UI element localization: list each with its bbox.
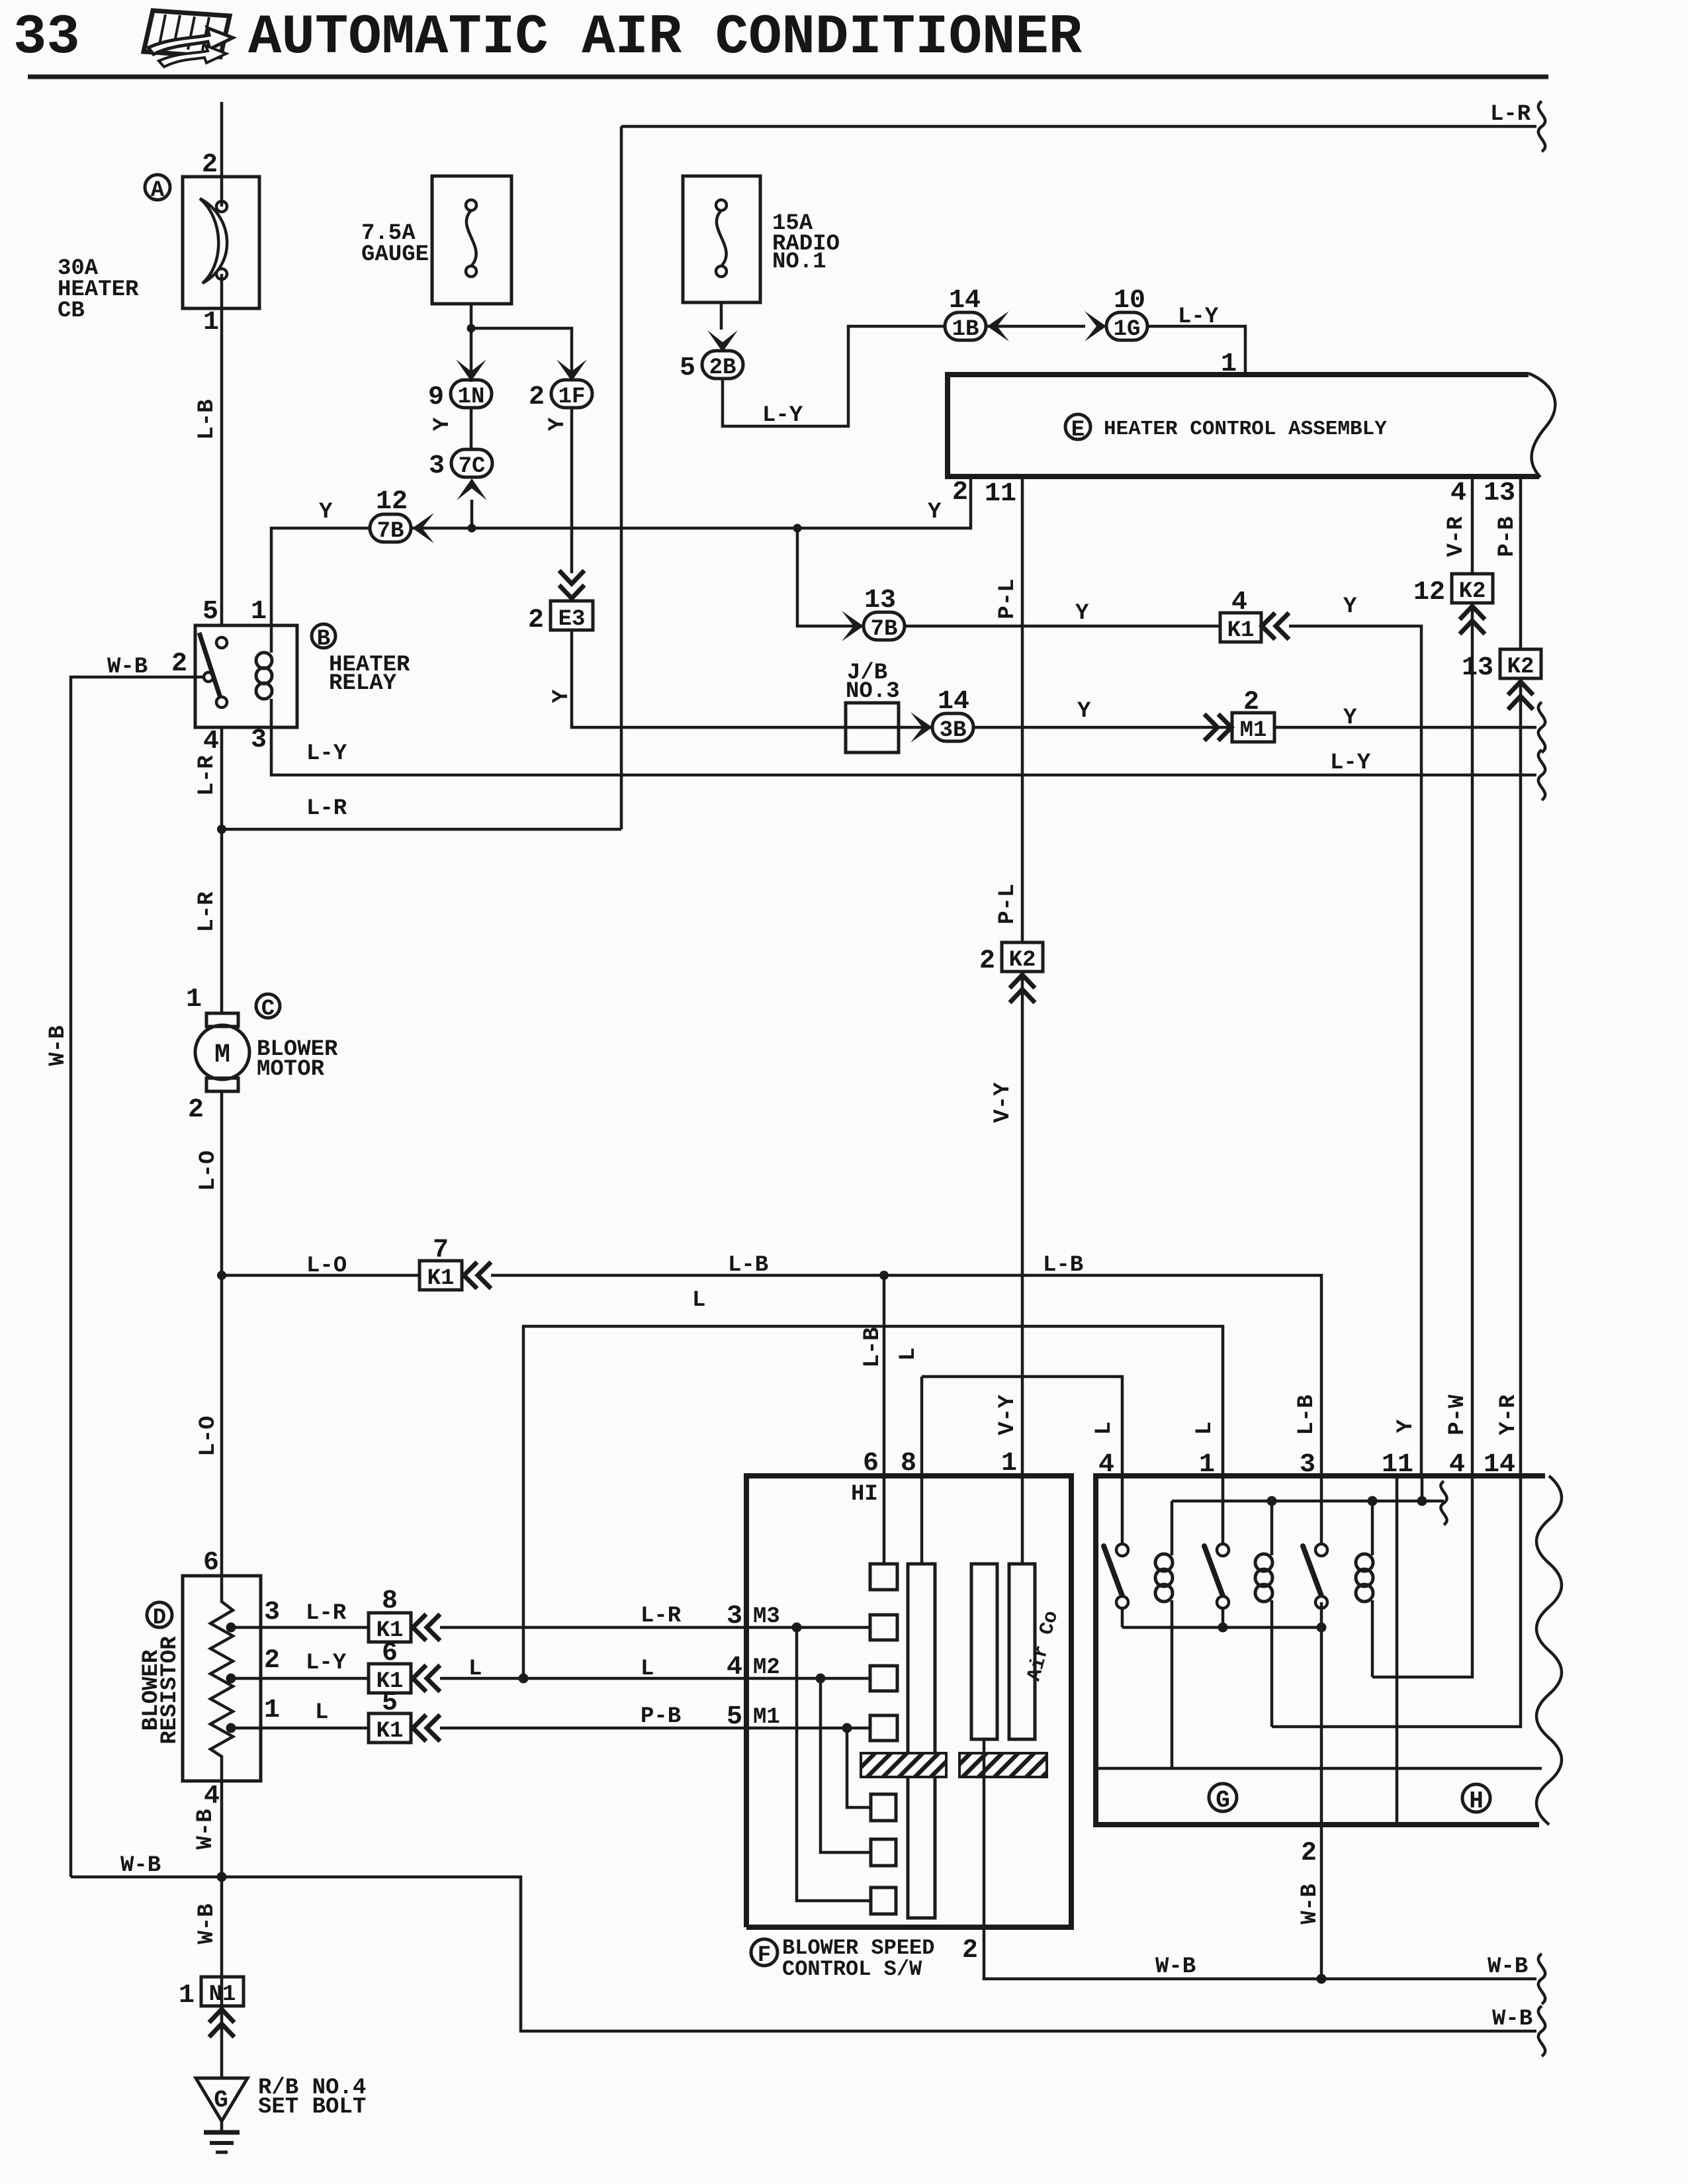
svg-text:L-O: L-O — [306, 1253, 347, 1279]
junction node pin11 join — [1417, 1496, 1427, 1506]
wire L-R riser (x939 from top wire down to L-R branch) — [620, 126, 623, 829]
svg-text:1: 1 — [1221, 349, 1237, 379]
label HEATER RELAY — [329, 653, 410, 696]
svg-text:2: 2 — [171, 649, 187, 679]
wire Y from M1 to right continuation — [1274, 726, 1536, 729]
svg-text:2: 2 — [529, 383, 545, 412]
svg-text:Y: Y — [1343, 594, 1357, 619]
lower contact square b — [871, 1839, 896, 1866]
svg-text:Y: Y — [1075, 601, 1089, 626]
chevron arrow up into K2-13 — [1508, 682, 1533, 709]
label W-B rotated (above junction) — [193, 1809, 218, 1849]
svg-text:13: 13 — [1484, 478, 1515, 508]
wire P-W from K2-12 down to H box pin4 — [1471, 606, 1474, 1476]
continuation squiggle L-Y right — [1538, 750, 1545, 800]
relay coil 2 — [1255, 1501, 1272, 1727]
svg-text:HEATER CONTROL ASSEMBLY: HEATER CONTROL ASSEMBLY — [1104, 418, 1387, 441]
relay pin numbers 5 1 2 4 3 — [202, 597, 218, 627]
pin 2 of F — [962, 1936, 978, 1966]
svg-text:K1: K1 — [1227, 618, 1255, 643]
svg-text:P-W: P-W — [1445, 1394, 1470, 1435]
svg-text:F: F — [758, 1943, 771, 1968]
svg-text:L-Y: L-Y — [306, 1651, 347, 1676]
junction node M3 — [792, 1623, 802, 1633]
svg-text:M1: M1 — [1240, 718, 1267, 743]
wire L-O branch to K1-7 — [222, 1274, 420, 1277]
connector 6 K1 — [369, 1639, 411, 1694]
label Y rotated (1F wire) — [545, 417, 570, 431]
label W-B (bottom left) — [120, 1853, 161, 1878]
junction node Y at x1205 — [793, 524, 802, 533]
wire Y from 1F down to E3 — [570, 408, 574, 573]
label L (on y2004 run) — [692, 1288, 705, 1313]
svg-text:RESISTOR: RESISTOR — [157, 1636, 183, 1745]
svg-text:A: A — [151, 178, 165, 203]
connector 12 K2 — [1413, 574, 1493, 608]
svg-text:NO.3: NO.3 — [846, 679, 900, 704]
wire Y from 7B-13 to K1-4 — [905, 625, 1220, 628]
svg-text:3B: 3B — [940, 718, 967, 743]
label Y (right of junction) — [928, 500, 942, 525]
svg-text:10: 10 — [1114, 286, 1145, 316]
svg-text:Y-R: Y-R — [1496, 1394, 1521, 1435]
svg-text:9: 9 — [428, 383, 444, 412]
relay B coil — [256, 625, 272, 727]
connector arrow into 1B (pointing left) — [987, 311, 1009, 341]
wire L-B drop to blower switch pin6 — [883, 1275, 886, 1476]
blower motor C — [195, 1013, 249, 1091]
junction box J/B NO.3 — [846, 703, 899, 752]
label L-B (right) — [1043, 1253, 1083, 1278]
wire L-R tap3 to K1-8 — [231, 1626, 369, 1629]
relay B heater relay box — [195, 625, 297, 727]
connector strip line — [1096, 1767, 1542, 1770]
svg-text:1: 1 — [251, 597, 267, 627]
wire L-Y from 2B down-right-up to 1B — [723, 326, 945, 426]
relay B switch contacts — [204, 637, 227, 707]
double chevron into K1-5 — [413, 1715, 440, 1741]
header rule — [28, 75, 1548, 79]
double chevron into M1 — [1204, 714, 1231, 741]
wire L-R main bus relay pin4 down to motor — [220, 727, 224, 1013]
G/H pin labels — [1098, 1450, 1114, 1480]
wire Y drop to 7B-13 row — [797, 528, 862, 626]
label Y rotated (below E3) — [549, 689, 574, 703]
air-co bar left — [971, 1564, 997, 1739]
svg-text:CONTROL S/W: CONTROL S/W — [782, 1957, 922, 1981]
label L-Y (left) — [306, 741, 347, 766]
wire from radio fuse to 2B arrow — [720, 302, 723, 330]
continuation squiggle L-R top right — [1538, 101, 1545, 152]
svg-text:P-L: P-L — [995, 578, 1020, 619]
svg-text:L: L — [692, 1288, 705, 1313]
relay assembly G/H box — [1096, 1476, 1562, 1825]
svg-text:5: 5 — [382, 1688, 398, 1718]
hatched slider block left — [861, 1753, 946, 1777]
label P-B rotated — [1495, 516, 1520, 557]
svg-text:P-B: P-B — [1495, 516, 1520, 557]
svg-text:V-Y: V-Y — [991, 1082, 1016, 1123]
connector 12 7B — [370, 487, 411, 544]
svg-text:L-Y: L-Y — [1178, 304, 1219, 330]
wire P-L assembly pin11 down to K2-2 — [1021, 477, 1024, 942]
connector 5 2B — [680, 351, 743, 383]
svg-text:L: L — [315, 1700, 328, 1725]
internal Y bus in G/H box — [1172, 1500, 1444, 1503]
label V-Y rotated (upper) — [991, 1082, 1016, 1123]
svg-text:L-R: L-R — [195, 755, 220, 796]
double chevron into K1-7 — [464, 1262, 491, 1289]
wire branch to 1F: right then down — [471, 328, 572, 381]
svg-text:L: L — [641, 1657, 654, 1682]
svg-text:12: 12 — [376, 487, 408, 517]
label W-B (bottom right) — [1492, 2007, 1533, 2032]
svg-text:SET BOLT: SET BOLT — [258, 2095, 366, 2120]
wire Y from 1N to 7C — [470, 408, 473, 449]
svg-text:W-B: W-B — [46, 1025, 71, 1066]
moving bar from pin 8 — [908, 1476, 935, 1918]
label L-R (branch) — [306, 796, 347, 821]
pin 3 M3 labels — [727, 1602, 780, 1631]
svg-text:CB: CB — [58, 298, 85, 324]
svg-text:1: 1 — [1199, 1450, 1215, 1480]
svg-text:GAUGE: GAUGE — [361, 242, 429, 267]
svg-text:V-R: V-R — [1444, 516, 1469, 557]
label L-B rotated (F pin6) — [860, 1327, 885, 1367]
label L-Y (2B wire) — [762, 403, 803, 428]
svg-text:M: M — [214, 1040, 230, 1070]
svg-text:D: D — [153, 1606, 166, 1631]
wire main bus from top into CB — [220, 102, 224, 308]
svg-text:M1: M1 — [753, 1705, 780, 1730]
resistor zigzag — [210, 1576, 233, 1781]
label Y (3B row left) — [1077, 699, 1091, 724]
svg-text:MOTOR: MOTOR — [257, 1057, 325, 1082]
continuation squiggle W-B right — [1538, 1954, 1545, 2004]
wire L-B from K1-7 right to corner x1997 — [491, 1275, 1321, 1476]
wire F pin8 riser — [920, 1377, 924, 1476]
label R/B NO.4 SET BOLT — [258, 2075, 366, 2120]
label L-R rotated (above motor) — [195, 891, 220, 933]
svg-text:L-B: L-B — [1294, 1394, 1319, 1435]
svg-text:6: 6 — [863, 1449, 879, 1479]
svg-text:5: 5 — [680, 353, 695, 383]
label 7.5A GAUGE — [361, 221, 429, 267]
connector 7 K1 — [420, 1236, 462, 1291]
label circled H — [1462, 1784, 1490, 1815]
circuit breaker A 30A HEATER CB — [183, 177, 259, 308]
svg-text:N1: N1 — [209, 1982, 236, 2007]
chevron arrow down into E3 — [559, 570, 584, 598]
junction node coil3 feed — [1368, 1496, 1378, 1506]
label L-Y (1G wire) — [1178, 304, 1219, 330]
heater control assembly E box — [948, 373, 1555, 477]
header air conditioner vent icon — [144, 11, 233, 67]
svg-text:33: 33 — [13, 7, 80, 69]
svg-text:4: 4 — [1231, 588, 1247, 617]
junction node below gauge fuse — [467, 324, 476, 333]
svg-text:2: 2 — [264, 1646, 280, 1676]
svg-text:11: 11 — [985, 479, 1016, 509]
svg-text:3: 3 — [251, 725, 267, 755]
connector arrow into 3B — [911, 712, 932, 743]
svg-text:L-O: L-O — [196, 1150, 221, 1191]
label Air Co rotated — [1023, 1609, 1063, 1684]
svg-text:1G: 1G — [1114, 317, 1141, 342]
svg-text:L-Y: L-Y — [306, 741, 347, 766]
svg-text:3: 3 — [264, 1598, 280, 1627]
wire P-B from K1-5 to M1 contact — [440, 1727, 870, 1730]
svg-text:NO.1: NO.1 — [772, 250, 826, 275]
pin 4 of resistor — [204, 1782, 220, 1811]
resistor tap 3 junction — [226, 1623, 236, 1633]
HI contact square — [870, 1564, 897, 1590]
svg-text:14: 14 — [949, 286, 981, 316]
connector 8 K1 — [369, 1586, 411, 1643]
svg-text:3: 3 — [727, 1602, 742, 1631]
svg-text:HI: HI — [851, 1482, 878, 1507]
svg-text:4: 4 — [1449, 1450, 1465, 1480]
svg-text:RELAY: RELAY — [329, 671, 397, 696]
connector arrow up into 7C — [457, 478, 487, 500]
label L rotated (F pin8) — [896, 1347, 921, 1361]
wire L-R from K1-8 to M3 contact — [440, 1626, 870, 1629]
M2 contact square — [870, 1666, 897, 1691]
wire L branch F-pin8 to G-box pin4 — [922, 1377, 1122, 1476]
label W-B rotated on left bus — [46, 1025, 71, 1066]
svg-text:4: 4 — [204, 1782, 220, 1811]
label W-B (right of junction) — [1488, 1954, 1528, 1979]
pin 11 of assembly — [985, 479, 1016, 509]
svg-text:5: 5 — [202, 597, 218, 627]
wire air-co left bar down to pin 2 out — [984, 1739, 1536, 1979]
wire Y from K1-4 to riser x2148 — [1289, 626, 1421, 1476]
svg-text:L-B: L-B — [195, 399, 220, 439]
wire pin2 W-B down from bus through box — [1320, 1602, 1323, 1979]
label W-B rotated (above N1) — [195, 1903, 220, 1944]
air-co bar right fed by pin1 — [1009, 1476, 1035, 1739]
wire Y-R from K2-13 down to H box pin14 — [1519, 681, 1523, 1476]
label Y rotated (1N wire) — [430, 417, 455, 431]
continuation squiggle Y right — [1538, 702, 1545, 752]
svg-text:K2: K2 — [1009, 948, 1036, 973]
svg-text:1: 1 — [264, 1696, 280, 1725]
svg-text:13: 13 — [864, 586, 896, 615]
label circled E — [1065, 414, 1090, 443]
wire P-W hook pin4H to coil3 — [1372, 1476, 1472, 1677]
svg-text:L-Y: L-Y — [762, 403, 803, 428]
svg-text:5: 5 — [727, 1702, 742, 1732]
svg-text:L: L — [468, 1657, 482, 1682]
svg-text:E3: E3 — [558, 607, 586, 632]
label L-B (left) — [728, 1253, 768, 1278]
junction node M1 — [842, 1723, 852, 1733]
label L-R rotated (below relay) — [195, 755, 220, 796]
junction node L-O branch — [217, 1271, 226, 1280]
svg-text:L-R: L-R — [306, 1601, 347, 1626]
header title AUTOMATIC AIR CONDITIONER — [248, 7, 1083, 69]
pin 1 of assembly — [1221, 349, 1237, 379]
ground R/B NO.4 SET BOLT — [196, 2078, 247, 2152]
junction node switch3 bottom / pin2 — [1317, 1623, 1327, 1633]
wire M1 hook to lower square a — [847, 1728, 871, 1807]
label 15A RADIO NO.1 — [772, 211, 840, 275]
label circled C — [256, 994, 280, 1022]
svg-text:Y: Y — [545, 417, 570, 431]
pin 1 of F — [1001, 1449, 1017, 1479]
junction node switch2 bottom — [1218, 1623, 1228, 1633]
wire L from K1-6 to M2 contact — [440, 1677, 870, 1680]
divider between connectors G and H — [1396, 1476, 1399, 1825]
svg-text:L-O: L-O — [196, 1416, 221, 1456]
wire L-R top feed (from riser to top-right continuation) — [621, 125, 1536, 128]
label L-Y (tap2) — [306, 1651, 347, 1676]
wire L-B from CB pin1 to relay pin5 — [220, 308, 224, 625]
svg-text:W-B: W-B — [1298, 1884, 1323, 1924]
pin 8 of F — [901, 1449, 916, 1479]
svg-text:7B: 7B — [871, 617, 898, 642]
label L-R (tap3) — [306, 1601, 347, 1626]
junction node L riser — [519, 1674, 529, 1684]
label L (M2 row) — [641, 1657, 654, 1682]
connector 13 7B — [864, 586, 905, 642]
M3 contact square — [870, 1615, 897, 1640]
svg-text:11: 11 — [1382, 1450, 1413, 1480]
wire Y-R hook pin14 to coil2 — [1272, 1476, 1521, 1727]
label L-O (K1-7 row) — [306, 1253, 347, 1279]
label circled D — [147, 1602, 172, 1631]
svg-text:K1: K1 — [377, 1719, 404, 1744]
wire L tap1 to K1-5 — [231, 1727, 369, 1730]
connector arrow into 1G (pointing right) — [1085, 311, 1106, 341]
label HI — [851, 1482, 878, 1507]
label BLOWER MOTOR — [257, 1037, 338, 1082]
label W-B — [107, 655, 148, 680]
svg-text:W-B: W-B — [1155, 1954, 1196, 1979]
wire from 7C down to Y junction — [470, 500, 474, 528]
double chevron into K1-8 — [413, 1614, 440, 1641]
double chevron into K1-4 — [1262, 613, 1289, 639]
label L (left of junction) — [468, 1657, 482, 1682]
connector arrow into 1F — [556, 359, 587, 381]
fuse 7.5A GAUGE — [432, 176, 511, 304]
svg-text:8: 8 — [382, 1586, 398, 1616]
svg-text:Y: Y — [1343, 705, 1357, 731]
label W-B (left of junction) — [1155, 1954, 1196, 1979]
svg-text:W-B: W-B — [107, 655, 148, 680]
wire P-B assembly pin13 down to K2-13 — [1519, 477, 1523, 649]
svg-text:1B: 1B — [952, 317, 979, 342]
label L-B rotated — [195, 399, 220, 439]
lower contact square c — [871, 1888, 896, 1914]
svg-text:2B: 2B — [709, 355, 736, 381]
svg-text:1N: 1N — [458, 385, 485, 410]
pin 6 of F — [863, 1449, 879, 1479]
svg-text:L-R: L-R — [195, 891, 220, 933]
svg-text:2: 2 — [202, 150, 218, 180]
connector 10 1G — [1106, 286, 1147, 342]
svg-text:M3: M3 — [753, 1604, 780, 1629]
relay switch 3 — [1303, 1476, 1327, 1608]
svg-text:Y: Y — [319, 500, 333, 525]
svg-text:L: L — [896, 1347, 921, 1361]
pin 4 of assembly — [1450, 478, 1466, 508]
double chevron into K1-6 — [413, 1665, 440, 1692]
svg-text:1: 1 — [1001, 1449, 1017, 1479]
svg-text:L: L — [1192, 1422, 1218, 1435]
chevron arrow up into N1 — [209, 2009, 234, 2037]
label W-B rotated (pin2) — [1298, 1884, 1323, 1924]
svg-text:W-B: W-B — [195, 1903, 220, 1944]
pin 3 label — [264, 1598, 280, 1627]
svg-text:4: 4 — [1098, 1450, 1114, 1480]
chevron arrow up into K2-2 — [1010, 975, 1035, 1003]
svg-text:7B: 7B — [377, 519, 404, 544]
label P-B (M1 row) — [641, 1704, 681, 1729]
wire L-R branch to riser — [222, 828, 621, 831]
connector 9 1N — [428, 380, 492, 412]
continuation squiggle internal bus — [1441, 1481, 1446, 1525]
svg-text:L-R: L-R — [306, 796, 347, 821]
wire L-Y from 1G to assembly pin 1 — [1147, 326, 1245, 375]
svg-text:L: L — [1092, 1422, 1117, 1435]
svg-text:E: E — [1071, 418, 1085, 443]
wire M3 hook to lower square c — [797, 1627, 871, 1901]
svg-text:1: 1 — [179, 1981, 195, 2011]
label J/B NO.3 — [846, 660, 900, 704]
svg-text:14: 14 — [1484, 1450, 1515, 1480]
hatched slider block right — [959, 1753, 1047, 1777]
label circled B — [312, 624, 335, 652]
relay B switch blade — [199, 633, 220, 698]
wire L-Y from relay pin3 down and right — [271, 727, 1536, 775]
svg-text:2: 2 — [962, 1936, 978, 1966]
connector 5 K1 — [369, 1688, 411, 1744]
svg-text:M2: M2 — [753, 1655, 780, 1680]
svg-text:2: 2 — [188, 1095, 204, 1125]
label circled F — [751, 1939, 777, 1968]
svg-text:7C: 7C — [459, 454, 486, 479]
label L-R (M3 row) — [641, 1604, 682, 1629]
svg-text:W-B: W-B — [1492, 2007, 1533, 2032]
wire between 1B and 1G arrows — [987, 325, 1085, 328]
svg-text:4: 4 — [727, 1653, 742, 1682]
svg-text:1: 1 — [186, 985, 202, 1015]
label L-O rotated (lower) — [196, 1416, 221, 1456]
label V-Y rotated (lower) — [995, 1394, 1020, 1435]
svg-text:2: 2 — [952, 478, 968, 508]
wire from E3 down then right to J/B No.3 — [572, 630, 932, 727]
continuation squiggle W-B bottom right — [1538, 2006, 1545, 2056]
label P-L rotated (upper) — [995, 578, 1020, 619]
connector 14 3B — [932, 687, 973, 743]
svg-text:1: 1 — [203, 308, 219, 338]
pin 1 of CB — [203, 308, 219, 338]
svg-text:AUTOMATIC AIR CONDITIONER: AUTOMATIC AIR CONDITIONER — [248, 7, 1083, 69]
label BLOWER RESISTOR rotated — [139, 1636, 183, 1745]
wire Y horizontal (7B-12 row) from relay pin1 riser — [271, 478, 971, 625]
svg-text:L-B: L-B — [728, 1253, 768, 1278]
svg-text:7: 7 — [433, 1236, 449, 1265]
svg-text:L-R: L-R — [641, 1604, 682, 1629]
junction node W-B — [217, 1872, 227, 1882]
junction node W-B under G/H box — [1317, 1974, 1327, 1984]
label 30A HEATER CB — [58, 256, 139, 324]
pin 13 of assembly — [1484, 478, 1515, 508]
wire M2 hook to lower square b — [821, 1678, 871, 1852]
wire V-R assembly pin4 down to K2-12 — [1471, 477, 1474, 574]
pin 2 of G/H box — [1301, 1839, 1317, 1868]
